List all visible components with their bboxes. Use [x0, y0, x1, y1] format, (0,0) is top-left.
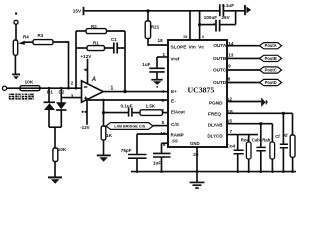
- svg-text:+12V: +12V: [81, 54, 93, 59]
- svg-text:100uF: 100uF: [204, 15, 217, 20]
- svg-text:15: 15: [183, 35, 187, 39]
- svg-text:D2: D2: [59, 90, 65, 95]
- svg-text:Vref: Vref: [171, 57, 180, 62]
- svg-text:16: 16: [228, 109, 234, 114]
- svg-text:18: 18: [158, 38, 164, 43]
- svg-text:FREQ: FREQ: [208, 112, 221, 117]
- svg-text:R4: R4: [23, 34, 29, 39]
- svg-text:25V: 25V: [222, 15, 231, 20]
- svg-text:PoutA: PoutA: [265, 43, 277, 48]
- svg-text:12: 12: [227, 97, 233, 102]
- svg-text:OUTC: OUTC: [213, 68, 227, 73]
- svg-text:75pF: 75pF: [121, 148, 132, 153]
- svg-text:PGND: PGND: [209, 100, 223, 105]
- svg-text:OUTA: OUTA: [213, 43, 227, 48]
- svg-text:3: 3: [162, 98, 165, 103]
- svg-text:15V: 15V: [73, 8, 82, 13]
- svg-text:UC3875: UC3875: [188, 86, 215, 95]
- svg-text:-12V: -12V: [80, 125, 89, 130]
- svg-text:9: 9: [228, 64, 231, 69]
- svg-text:8: 8: [228, 77, 231, 82]
- svg-text:Vc: Vc: [198, 44, 204, 49]
- svg-text:20: 20: [193, 152, 199, 157]
- svg-text:SLOPE: SLOPE: [171, 44, 187, 49]
- svg-text:4: 4: [162, 89, 165, 94]
- svg-text:2: 2: [162, 108, 165, 113]
- svg-text:15: 15: [227, 119, 233, 124]
- svg-text:RAMP: RAMP: [171, 133, 184, 138]
- svg-text:E-: E-: [171, 98, 176, 103]
- svg-text:1uF: 1uF: [153, 160, 161, 165]
- svg-text:1K: 1K: [106, 133, 113, 139]
- svg-text:3: 3: [202, 35, 204, 39]
- svg-text:A: A: [91, 77, 96, 83]
- svg-text:Co4: Co4: [227, 143, 236, 148]
- svg-text:OUTB: OUTB: [213, 56, 227, 61]
- svg-text:LXB BRIDGE C/S: LXB BRIDGE C/S: [114, 125, 145, 129]
- svg-text:Rab: Rab: [262, 138, 270, 143]
- svg-text:Vin: Vin: [189, 44, 196, 49]
- svg-text:PoutB: PoutB: [265, 56, 277, 61]
- svg-text:D1: D1: [47, 90, 53, 95]
- svg-text:Cab: Cab: [252, 138, 260, 143]
- svg-text:19: 19: [160, 131, 166, 136]
- svg-text:PoutC: PoutC: [265, 68, 277, 73]
- svg-text:E+: E+: [171, 89, 177, 94]
- svg-text:E/Aout: E/Aout: [171, 110, 185, 115]
- svg-text:+: +: [213, 22, 215, 26]
- svg-text:7: 7: [230, 129, 233, 134]
- svg-text:Ro4: Ro4: [241, 138, 250, 143]
- svg-text:1: 1: [163, 52, 166, 57]
- svg-text:1: 1: [111, 86, 114, 92]
- svg-text:DLYAB: DLYAB: [208, 123, 223, 128]
- svg-text:Rf: Rf: [283, 133, 288, 138]
- svg-text:DLYCD: DLYCD: [207, 134, 223, 139]
- svg-text:Cf: Cf: [275, 134, 280, 139]
- svg-text:10K: 10K: [58, 147, 67, 152]
- svg-text:R21: R21: [151, 24, 160, 29]
- svg-text:0.1uF: 0.1uF: [121, 103, 133, 108]
- svg-text:10K: 10K: [25, 80, 34, 86]
- svg-text:C1: C1: [111, 37, 117, 42]
- svg-text:GND: GND: [190, 141, 200, 146]
- svg-text:R3: R3: [38, 33, 44, 38]
- svg-text:C/S: C/S: [171, 122, 179, 127]
- svg-text:2: 2: [71, 80, 74, 85]
- svg-text:SS: SS: [172, 138, 178, 143]
- svg-text:R1: R1: [93, 40, 99, 45]
- svg-text:0.1uF: 0.1uF: [222, 3, 234, 8]
- svg-text:1.5K: 1.5K: [146, 104, 156, 109]
- svg-text:R2: R2: [91, 24, 97, 29]
- svg-text:1uF: 1uF: [142, 62, 150, 67]
- svg-text:6: 6: [163, 142, 166, 147]
- svg-text:14: 14: [228, 41, 234, 46]
- svg-text:13: 13: [228, 52, 234, 57]
- svg-text:OUTD: OUTD: [213, 80, 227, 85]
- svg-text:5: 5: [162, 120, 165, 125]
- svg-text:PoutD: PoutD: [265, 80, 277, 85]
